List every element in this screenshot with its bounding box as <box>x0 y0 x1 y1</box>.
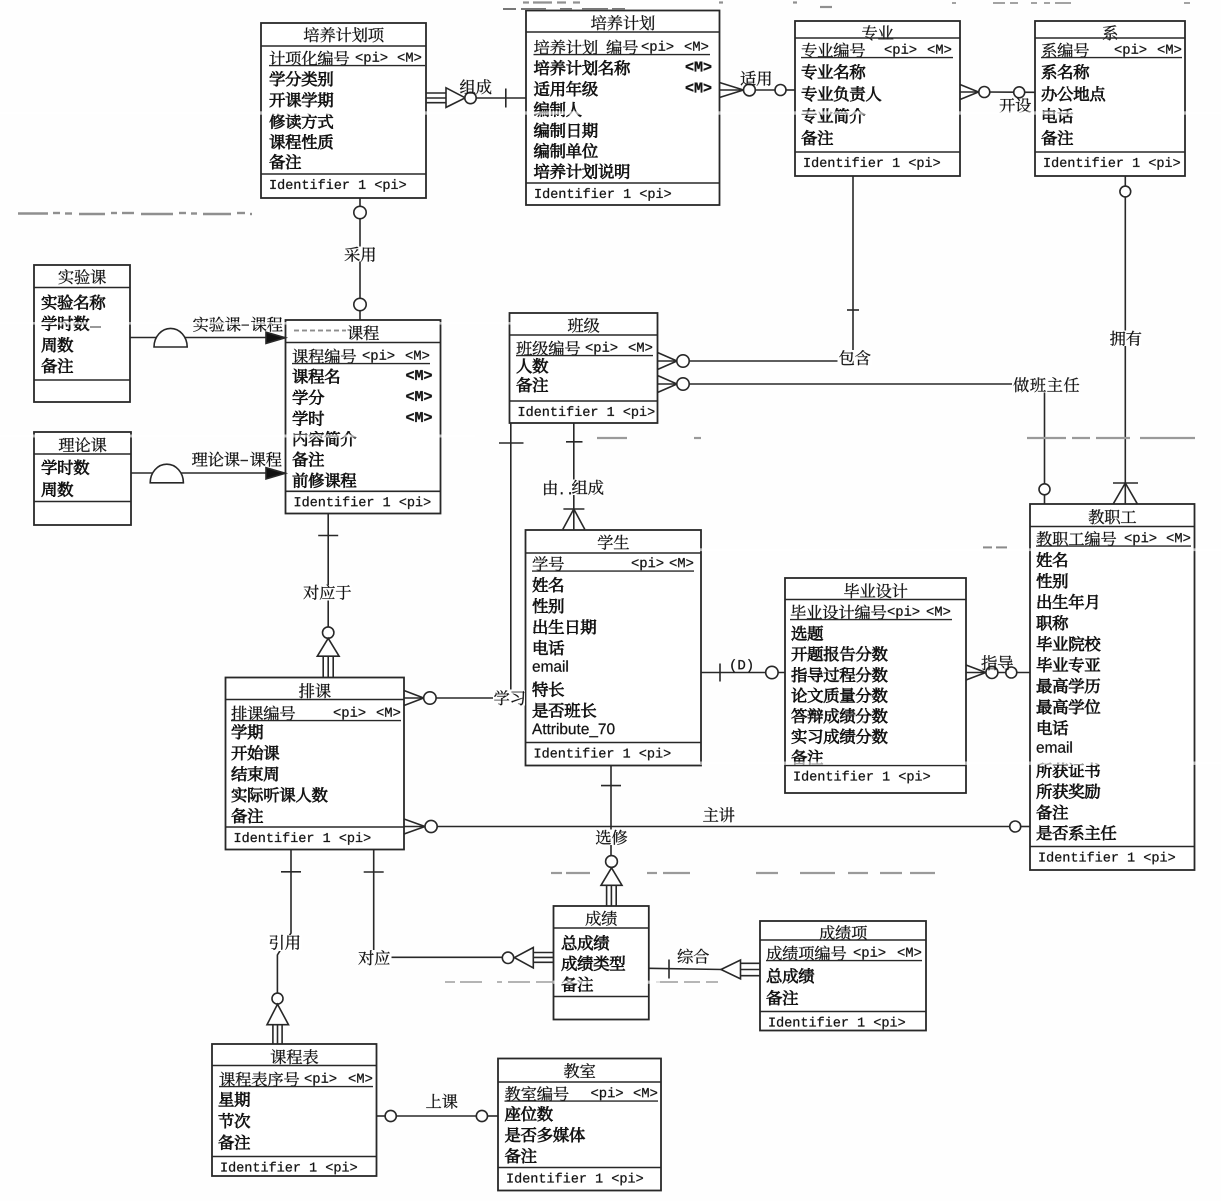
relationship 实验课-课程 <box>130 317 286 347</box>
relationship 适用 (培养计划-专业) <box>720 71 796 98</box>
relationship 做班主任 (班级-教职工) <box>658 376 1081 505</box>
wire 班级 bottom stub <box>499 423 524 690</box>
entity 教职工 <box>1030 504 1195 870</box>
relationship 组成 (培养计划项-培养计划) <box>426 79 527 107</box>
relationship 引用 (排课-课程表) <box>267 850 303 1044</box>
relationship 指导 (毕业设计-教职工) and (D) link from 学生 <box>701 655 1030 681</box>
scan artifacts (gray dashes) <box>18 3 1195 983</box>
relationship 拥有 (系-教职工) <box>1109 176 1143 504</box>
entity 理论课 <box>34 432 131 525</box>
entity 培养计划项 <box>261 23 426 198</box>
entity 专业 <box>795 21 960 176</box>
relationship 由..组成 (班级-学生) <box>541 423 606 529</box>
relationship 采用 (培养计划项-课程) <box>344 198 377 320</box>
relationship 对应于 (课程-排课) <box>302 514 352 678</box>
scan white streaks <box>0 111 1221 984</box>
entity 毕业设计 <box>785 578 966 793</box>
relationship 包含 (专业-班级) <box>658 176 873 370</box>
relationship 对应 (排课-成绩) <box>357 850 554 968</box>
entity 班级 <box>510 313 658 423</box>
relationship 上课 (课程表-教室) <box>377 1094 498 1122</box>
entity 实验课 <box>34 265 130 402</box>
relationship 学习 (排课-学生) <box>404 690 525 705</box>
relationship 主讲 (排课-教职工) <box>404 807 1030 834</box>
entity 教室 <box>498 1059 661 1191</box>
relationship 综合 (成绩-成绩项) <box>649 949 760 979</box>
entity 课程表 <box>212 1044 377 1176</box>
entity 成绩项 <box>760 921 926 1031</box>
entity 培养计划 <box>526 11 720 206</box>
entity 课程 <box>286 320 441 514</box>
relationship 理论课-课程 <box>131 452 286 483</box>
relationship 开设 (专业-系) <box>960 85 1035 113</box>
entity 排课 <box>226 678 405 850</box>
entity 系 <box>1035 21 1185 176</box>
entity 成绩 <box>554 906 649 1020</box>
entity 学生 <box>526 530 702 766</box>
relationship 选修 (学生-成绩) <box>595 766 629 906</box>
